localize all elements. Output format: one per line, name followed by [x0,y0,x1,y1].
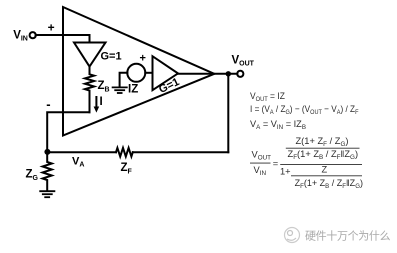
svg-text:VA = VIN = IZB: VA = VIN = IZB [250,119,306,131]
equations group [250,91,363,190]
ground (ZG) [40,191,54,197]
wire IZ circle to buffer U2 [145,72,152,74]
buffer U2 G=1 (output buffer, points right) [153,56,179,90]
svg-text:ZF(1+ ZB / ZF‖ZG): ZF(1+ ZB / ZF‖ZG) [295,178,363,190]
svg-text:-: - [46,97,50,112]
current source IZ circle [127,64,145,82]
ground (IZ source) [113,87,127,93]
resistor ZG [43,155,52,191]
svg-text:VIN: VIN [254,165,267,177]
watermark logo icon [285,228,300,243]
svg-text:Z: Z [322,164,328,174]
node junction VA [44,149,50,155]
terminal Vout [237,71,243,77]
svg-text:ZF(1+ ZB / ZF‖ZG): ZF(1+ ZB / ZF‖ZG) [288,149,359,161]
wire bottom from node VA to ZF [47,151,116,153]
current arrow I [95,97,97,108]
main fraction bar [280,163,362,165]
wire ZF to feedback vertical [133,151,229,153]
svg-text:1+: 1+ [280,166,291,176]
wire IZ circle left to ground [120,73,128,87]
svg-text:硬件十万个为什么: 硬件十万个为什么 [305,229,391,243]
buffer U1 G=1 (input buffer, points down) [74,43,106,67]
svg-text:VA: VA [72,156,84,169]
wire feedback vertical from output node [227,74,229,152]
svg-text:Z(1+ ZF / ZG): Z(1+ ZF / ZG) [296,136,349,148]
wire input Vin to buffer top [36,35,90,43]
svg-text:+: + [48,21,55,35]
resistor ZB [85,67,94,113]
svg-text:ZG: ZG [26,169,39,183]
svg-text:G=1: G=1 [101,51,122,63]
wire ZB bottom jog to inverting node [47,112,89,151]
svg-text:VOUT = IZ: VOUT = IZ [250,91,285,103]
svg-text:+: + [140,53,146,65]
node junction at output [226,71,231,76]
svg-text:=: = [273,158,278,168]
svg-text:I: I [100,96,103,108]
resistor ZF [116,148,133,157]
wire buffer U2 output to Vout terminal [178,73,237,75]
svg-text:VIN: VIN [13,30,28,43]
svg-text:ZF: ZF [121,162,133,176]
svg-text:IZ: IZ [128,84,138,96]
svg-text:I = (VA / ZG) − (VOUT − VA) /: I = (VA / ZG) − (VOUT − VA) / ZF [250,104,359,117]
svg-text:VOUT: VOUT [232,55,255,68]
svg-text:VOUT: VOUT [252,150,272,162]
terminal Vin [30,32,36,38]
op-amp main body triangle [63,7,214,136]
svg-text:ZB: ZB [98,80,110,94]
